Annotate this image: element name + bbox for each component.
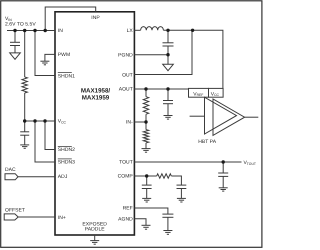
svg-text:PADDLE: PADDLE [85, 226, 106, 232]
svg-text:ADJ: ADJ [58, 174, 68, 180]
wire VCC rail [25, 120, 55, 122]
ground (exposed paddle) [90, 235, 99, 244]
svg-text:SHDN3: SHDN3 [58, 160, 75, 166]
svg-text:SHDN1: SHDN1 [58, 73, 75, 79]
ground (C8) [163, 231, 172, 235]
svg-text:TOUT: TOUT [247, 162, 256, 166]
wire REF [134, 208, 168, 214]
svg-text:MAX1958/: MAX1958/ [81, 87, 111, 94]
ground (C5) [219, 188, 228, 191]
wire OFFSET to IN+ [18, 216, 55, 218]
wire LX output node [163, 30, 223, 88]
svg-text:OUT: OUT [122, 72, 133, 78]
node TOUT junction [222, 160, 225, 163]
wire PWM to ground [45, 54, 55, 61]
ground (AGND) [142, 225, 151, 229]
resistor R1 [22, 77, 27, 93]
node VCC box [209, 88, 224, 97]
svg-text:CC: CC [214, 93, 219, 97]
wire AOUT [134, 88, 188, 90]
resistor R2 (AOUT to IN-) [143, 89, 148, 122]
input flag OFFSET [4, 214, 18, 220]
node VCC rail dot 1 [23, 119, 26, 122]
wire VIN rail [7, 30, 55, 32]
wire LX lead [134, 29, 140, 31]
svg-text:REF: REF [123, 206, 133, 212]
svg-text:HBT PA: HBT PA [198, 139, 217, 145]
resistor R3 (IN- to GND) [143, 122, 148, 149]
node PGND junction [166, 53, 169, 56]
wire amp output [245, 116, 259, 118]
op-amp HBT PA (back triangle) [213, 99, 245, 135]
node VCC rail dot 3 [43, 119, 46, 122]
wire INP elbow (rail up and over to INP pin) [45, 7, 95, 31]
capacitor C4 (AOUT filter) [163, 89, 173, 116]
svg-text:PWM: PWM [58, 52, 70, 58]
wire DAC to ADJ [18, 176, 55, 178]
wire LX cap branch [167, 30, 169, 43]
svg-text:IN: IN [58, 28, 63, 34]
svg-text:AGND: AGND [118, 216, 133, 222]
svg-text:SHDN2: SHDN2 [58, 147, 75, 153]
label VIN 2.6V TO 5.5V [5, 16, 36, 28]
capacitor C2 (VCC bypass) [20, 132, 29, 145]
node VIN rail dot 3 [33, 29, 36, 32]
label EXPOSED PADDLE [82, 221, 107, 232]
ground (triangle, PGND) [163, 64, 174, 70]
wire SHDN3 connect [35, 121, 55, 162]
node AOUT-R2 junction [144, 87, 147, 90]
wire resistor branch lower [24, 93, 26, 121]
svg-text:DAC: DAC [5, 167, 16, 173]
svg-text:OFFSET: OFFSET [5, 207, 25, 213]
node VIN rail dot 2 [23, 29, 26, 32]
node VIN rail dot 4 [44, 29, 47, 32]
svg-text:REF: REF [197, 93, 204, 97]
wire SHDN2 connect [45, 121, 55, 150]
capacitor C3 (output) [163, 43, 174, 55]
ground (triangle, input cap) [10, 53, 21, 59]
node VREF box [189, 88, 209, 97]
svg-text:CC: CC [61, 120, 66, 124]
ground (VCC cap) [20, 145, 29, 148]
svg-text:COMP: COMP [118, 174, 134, 180]
ground (C4) [164, 116, 173, 120]
pin label SHDN1 (overline) [58, 73, 75, 80]
input flag DAC [5, 174, 18, 180]
svg-text:PGND: PGND [118, 52, 133, 58]
svg-text:AOUT: AOUT [119, 87, 133, 93]
node AOUT-C4 junction [166, 87, 169, 90]
wire SHDN1 connect [35, 31, 55, 76]
wire COMP elbow [171, 176, 181, 185]
node IN- junction [144, 120, 147, 123]
capacitor C6 (COMP left) [142, 176, 152, 198]
wire TOUT [134, 161, 241, 163]
ground (C7) [177, 198, 186, 202]
inductor L1 [141, 27, 164, 31]
node VIN rail dot 1 [13, 29, 16, 32]
svg-text:TOUT: TOUT [119, 160, 133, 166]
node OUT junction [191, 29, 194, 32]
node LX-C3 junction [166, 29, 169, 32]
label VTOUT [244, 160, 256, 166]
pin label VCC [58, 118, 67, 124]
svg-text:2.6V TO 5.5V: 2.6V TO 5.5V [5, 22, 36, 28]
wire VCC cap branch [24, 121, 26, 132]
op-amp HBT PA (front triangle) [205, 97, 237, 134]
capacitor C1 (input) [10, 42, 20, 53]
resistor R4 (COMP series) [157, 174, 172, 178]
svg-text:INP: INP [91, 15, 100, 21]
capacitor C5 (TOUT) [218, 173, 228, 188]
svg-text:LX: LX [127, 28, 134, 34]
IC title MAX1958/MAX1959 [81, 87, 111, 101]
capacitor C7 (COMP right) [177, 185, 187, 198]
ground (R3) [142, 149, 151, 153]
pin label SHDN3 (overline) [58, 159, 75, 166]
wire OUT up to LX node [134, 30, 192, 74]
capacitor C8 (REF) [162, 214, 173, 230]
ground (C6) [142, 198, 151, 202]
svg-text:IN-: IN- [126, 120, 133, 126]
svg-text:IN+: IN+ [58, 215, 66, 221]
node COMP junction [145, 174, 148, 177]
wire AGND [134, 219, 146, 226]
wire amp input stub [190, 115, 205, 117]
wire input cap branch [14, 31, 16, 43]
svg-text:MAX1959: MAX1959 [82, 95, 110, 102]
wire TOUT cap branch [222, 162, 224, 173]
wire resistor branch upper [24, 31, 26, 78]
ground (PWM) [40, 61, 49, 65]
wire PGND [134, 54, 168, 56]
IC U1 MAX1958/MAX1959 body [55, 12, 134, 235]
wire COMP [134, 175, 156, 177]
pin label SHDN2 (overline) [58, 146, 75, 153]
node VCC rail dot 2 [33, 119, 36, 122]
wire IN- [134, 121, 146, 123]
wire PGND ground stub [167, 55, 169, 65]
